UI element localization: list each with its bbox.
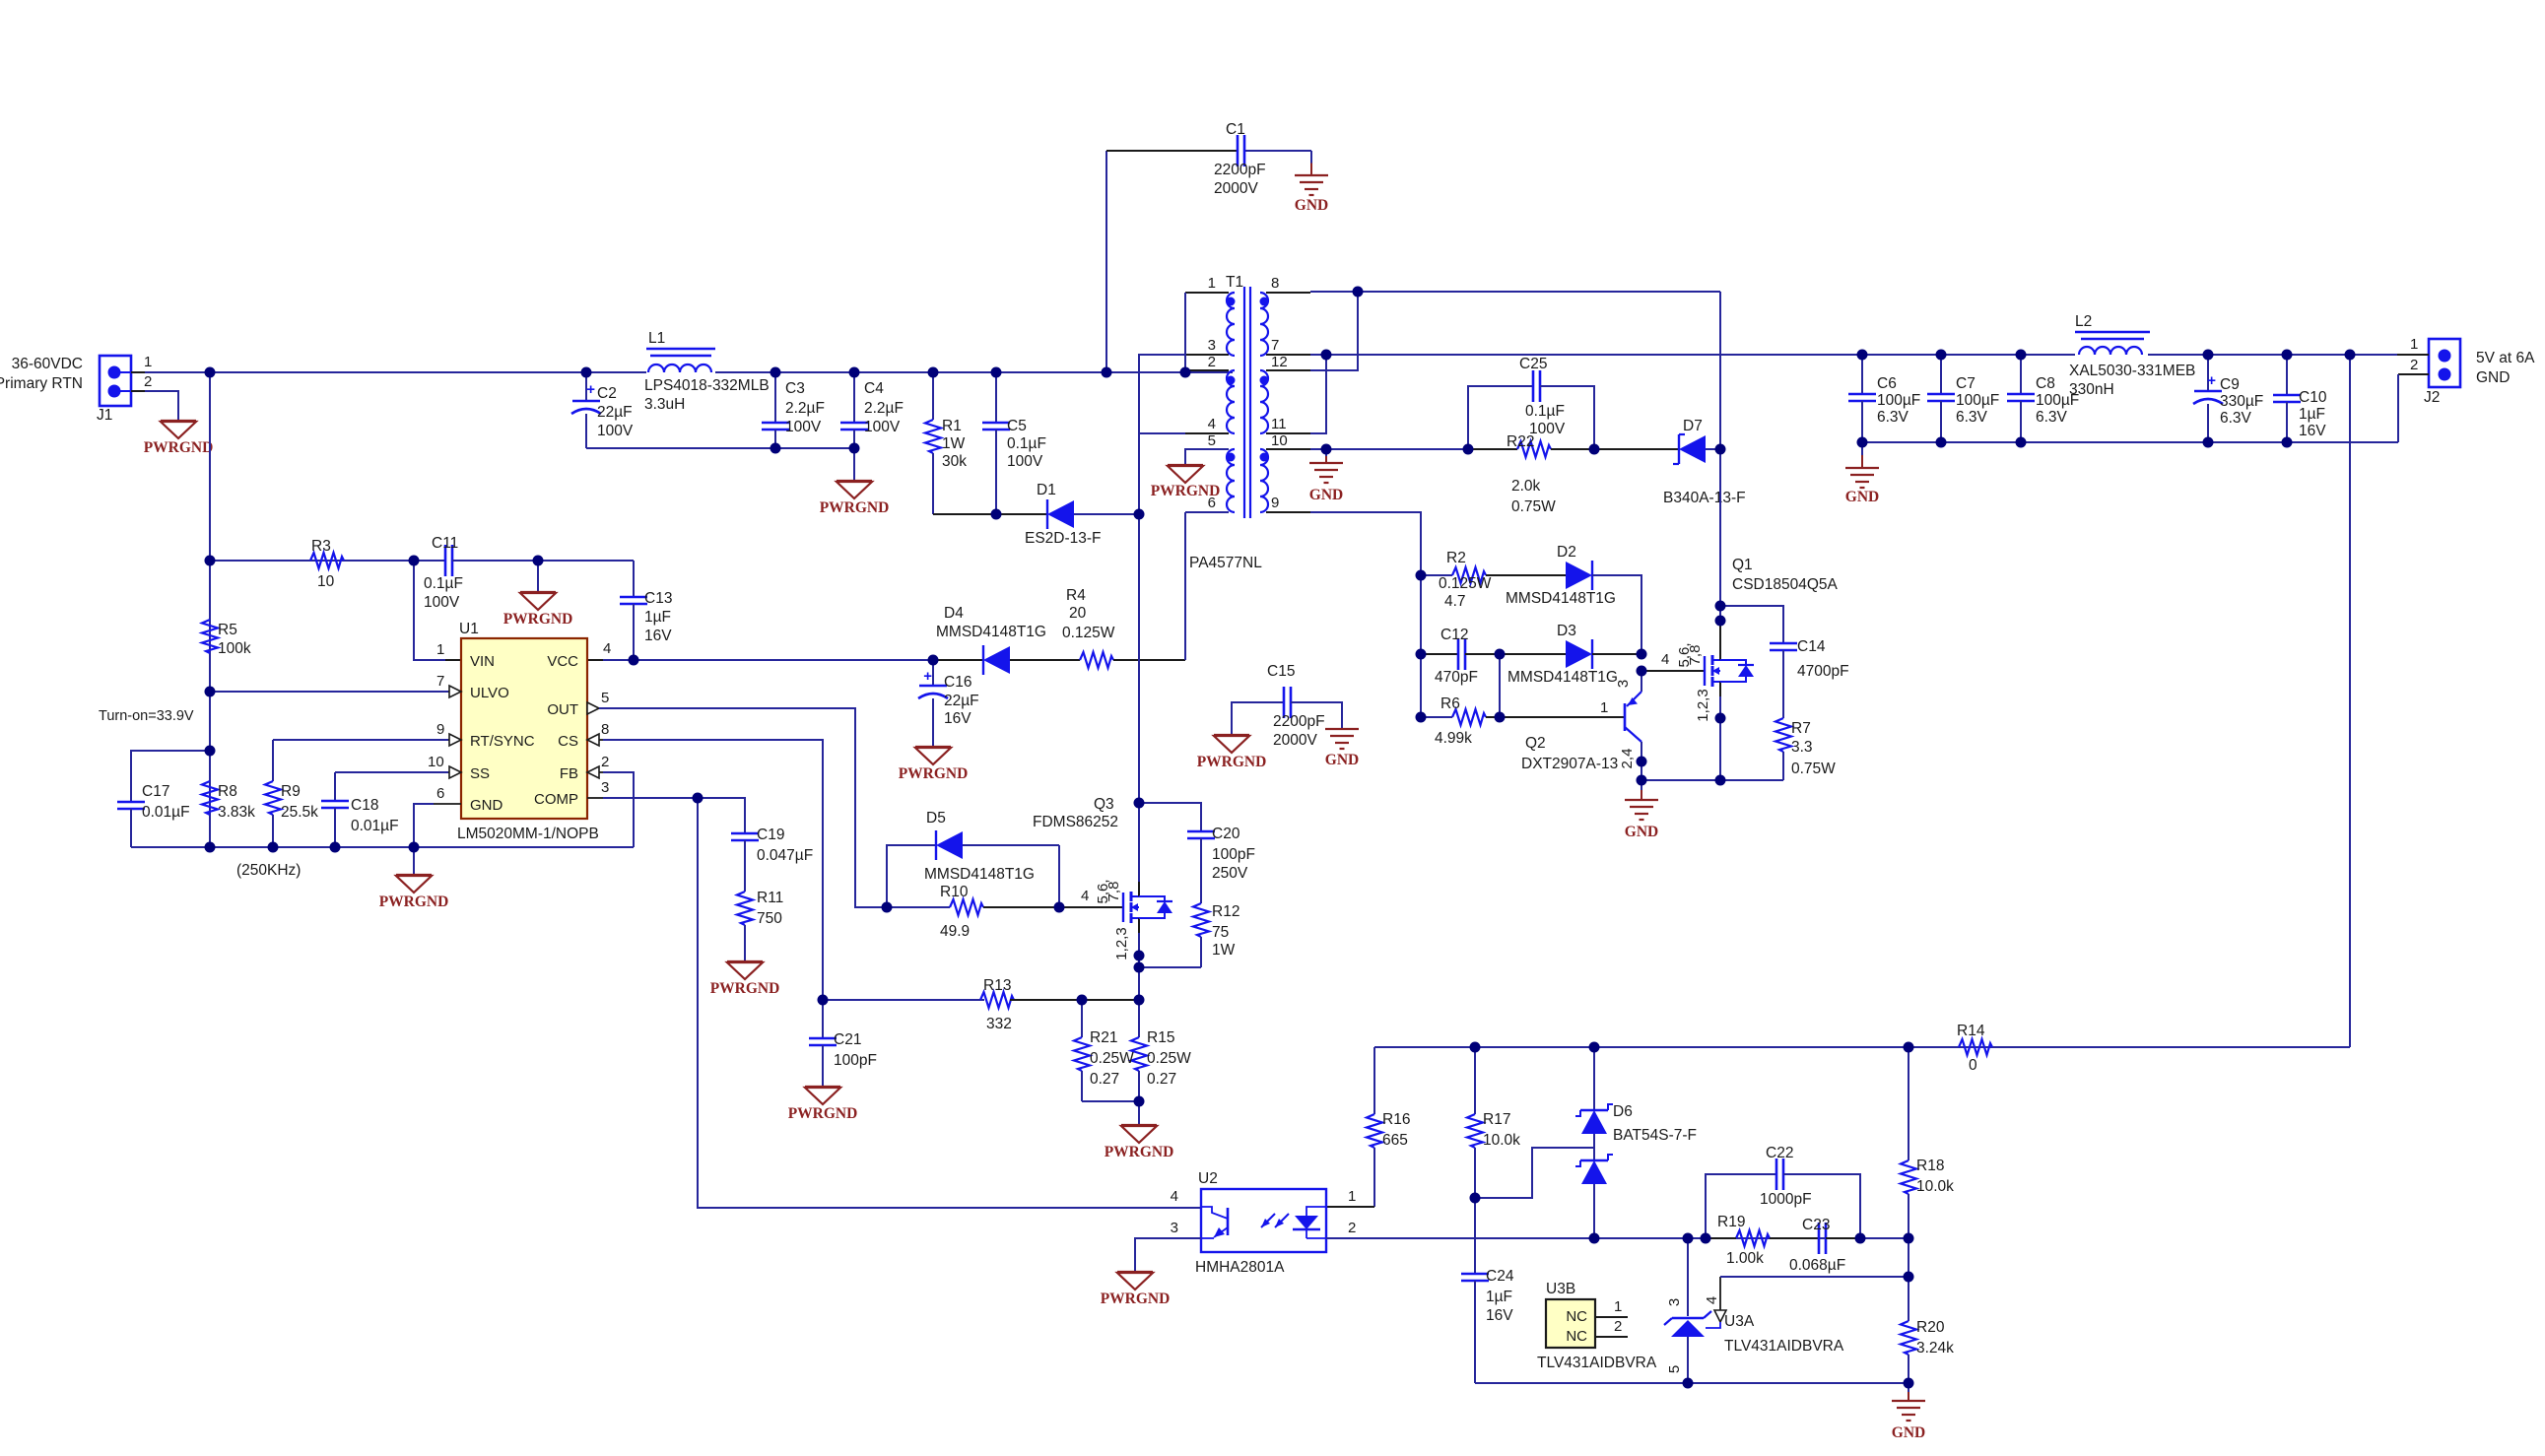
svg-text:C16: C16 — [944, 674, 971, 691]
svg-text:0.125W: 0.125W — [1439, 575, 1492, 592]
svg-text:HMHA2801A: HMHA2801A — [1195, 1259, 1285, 1276]
svg-text:0.27: 0.27 — [1147, 1071, 1176, 1088]
svg-text:U1: U1 — [459, 621, 479, 637]
svg-text:22µF: 22µF — [597, 404, 633, 421]
svg-text:D6: D6 — [1613, 1103, 1633, 1120]
svg-text:+: + — [586, 381, 595, 398]
svg-text:5: 5 — [1666, 1365, 1683, 1373]
svg-text:1: 1 — [436, 641, 444, 658]
svg-text:330nH: 330nH — [2069, 381, 2114, 398]
svg-text:100k: 100k — [218, 640, 251, 657]
svg-text:7: 7 — [1271, 337, 1279, 354]
svg-text:J1: J1 — [97, 407, 112, 424]
svg-text:6.3V: 6.3V — [2220, 410, 2252, 427]
svg-text:D1: D1 — [1037, 482, 1056, 498]
svg-text:C22: C22 — [1766, 1145, 1793, 1161]
svg-text:3: 3 — [601, 779, 609, 796]
svg-text:7: 7 — [436, 673, 444, 690]
svg-text:7,8: 7,8 — [1105, 882, 1122, 902]
svg-text:5: 5 — [601, 690, 609, 706]
svg-text:10: 10 — [317, 573, 335, 590]
svg-text:C24: C24 — [1486, 1268, 1514, 1285]
svg-text:XAL5030-331MEB: XAL5030-331MEB — [2069, 363, 2195, 379]
svg-text:C21: C21 — [834, 1031, 861, 1048]
svg-text:C14: C14 — [1797, 638, 1826, 655]
svg-text:PWRGND: PWRGND — [503, 611, 573, 628]
svg-text:D2: D2 — [1557, 544, 1576, 561]
svg-text:C17: C17 — [142, 783, 169, 800]
svg-text:R14: R14 — [1957, 1023, 1985, 1039]
svg-text:D3: D3 — [1557, 623, 1576, 639]
svg-text:R22: R22 — [1507, 433, 1534, 450]
svg-text:PWRGND: PWRGND — [379, 893, 449, 910]
svg-text:25.5k: 25.5k — [281, 804, 318, 821]
svg-text:100µF: 100µF — [1956, 392, 1999, 409]
svg-text:C25: C25 — [1519, 356, 1547, 372]
svg-text:R3: R3 — [311, 538, 331, 555]
svg-text:100V: 100V — [864, 419, 901, 435]
svg-text:PWRGND: PWRGND — [788, 1105, 858, 1122]
svg-text:Q1: Q1 — [1732, 557, 1753, 573]
svg-text:MMSD4148T1G: MMSD4148T1G — [1506, 590, 1616, 607]
svg-text:1000pF: 1000pF — [1760, 1191, 1812, 1208]
svg-text:PWRGND: PWRGND — [820, 499, 890, 516]
svg-text:16V: 16V — [2299, 423, 2326, 439]
svg-text:LPS4018-332MLB: LPS4018-332MLB — [644, 377, 770, 394]
svg-text:NC: NC — [1566, 1308, 1587, 1325]
svg-text:4: 4 — [603, 640, 611, 657]
svg-text:665: 665 — [1382, 1132, 1408, 1149]
svg-text:GND: GND — [1295, 197, 1328, 214]
svg-text:1µF: 1µF — [1486, 1289, 1512, 1305]
svg-text:5V at 6A: 5V at 6A — [2476, 350, 2535, 366]
svg-text:ES2D-13-F: ES2D-13-F — [1025, 530, 1102, 547]
svg-text:0.068µF: 0.068µF — [1789, 1257, 1845, 1274]
svg-text:C1: C1 — [1226, 121, 1245, 138]
svg-text:B340A-13-F: B340A-13-F — [1663, 490, 1746, 506]
svg-text:Q3: Q3 — [1094, 796, 1114, 813]
svg-text:10.0k: 10.0k — [1483, 1132, 1520, 1149]
svg-text:100V: 100V — [1529, 421, 1566, 437]
svg-text:332: 332 — [986, 1016, 1012, 1032]
svg-text:Q2: Q2 — [1525, 735, 1546, 752]
svg-text:6.3V: 6.3V — [1877, 409, 1909, 426]
svg-text:16V: 16V — [1486, 1307, 1513, 1324]
svg-text:0.01µF: 0.01µF — [142, 804, 190, 821]
svg-text:R10: R10 — [940, 884, 969, 900]
svg-text:3: 3 — [1171, 1220, 1178, 1236]
svg-text:PWRGND: PWRGND — [1197, 754, 1267, 770]
svg-text:T1: T1 — [1226, 274, 1243, 291]
svg-text:4: 4 — [1171, 1188, 1178, 1205]
svg-text:R17: R17 — [1483, 1111, 1510, 1128]
svg-text:+: + — [2207, 372, 2216, 389]
svg-text:36-60VDC: 36-60VDC — [12, 356, 83, 372]
svg-text:C6: C6 — [1877, 375, 1897, 392]
svg-text:16V: 16V — [944, 710, 971, 727]
svg-text:4: 4 — [1661, 651, 1669, 668]
svg-text:2.2µF: 2.2µF — [785, 400, 825, 417]
svg-text:750: 750 — [757, 910, 782, 927]
svg-text:0.047µF: 0.047µF — [757, 847, 813, 864]
svg-text:C12: C12 — [1440, 627, 1468, 643]
svg-text:D5: D5 — [926, 810, 946, 827]
svg-text:0.75W: 0.75W — [1791, 761, 1836, 777]
svg-text:49.9: 49.9 — [940, 923, 970, 940]
svg-text:R6: R6 — [1440, 695, 1460, 712]
svg-text:U2: U2 — [1198, 1170, 1218, 1187]
svg-text:0.125W: 0.125W — [1062, 625, 1115, 641]
svg-text:Primary RTN: Primary RTN — [0, 375, 83, 392]
svg-text:+: + — [923, 668, 932, 685]
svg-text:C7: C7 — [1956, 375, 1976, 392]
svg-text:75: 75 — [1212, 924, 1229, 941]
svg-text:12: 12 — [1271, 354, 1288, 370]
svg-text:R15: R15 — [1147, 1029, 1174, 1046]
svg-text:4: 4 — [1081, 888, 1089, 904]
svg-text:4: 4 — [1208, 416, 1216, 432]
svg-text:7,8: 7,8 — [1687, 645, 1704, 666]
svg-text:C8: C8 — [2036, 375, 2055, 392]
svg-text:0.27: 0.27 — [1090, 1071, 1119, 1088]
svg-text:DXT2907A-13: DXT2907A-13 — [1521, 756, 1618, 772]
svg-text:C5: C5 — [1007, 418, 1027, 434]
svg-text:8: 8 — [1271, 275, 1279, 292]
svg-text:3: 3 — [1208, 337, 1216, 354]
svg-text:GND: GND — [1309, 487, 1343, 503]
svg-text:1,2,3: 1,2,3 — [1695, 689, 1711, 721]
svg-text:CS: CS — [558, 733, 578, 750]
svg-text:2,4: 2,4 — [1619, 749, 1636, 769]
svg-text:GND: GND — [1892, 1424, 1925, 1441]
svg-text:R11: R11 — [757, 890, 783, 906]
svg-text:4: 4 — [1704, 1296, 1720, 1304]
svg-text:2: 2 — [601, 754, 609, 770]
svg-text:1: 1 — [1348, 1188, 1356, 1205]
svg-text:0.25W: 0.25W — [1090, 1050, 1134, 1067]
svg-text:11: 11 — [1271, 416, 1287, 432]
svg-text:OUT: OUT — [547, 701, 578, 718]
svg-text:GND: GND — [2476, 369, 2510, 386]
svg-text:(250KHz): (250KHz) — [236, 862, 301, 879]
svg-text:R7: R7 — [1791, 720, 1811, 737]
svg-text:TLV431AIDBVRA: TLV431AIDBVRA — [1537, 1355, 1657, 1371]
svg-text:2: 2 — [2410, 357, 2418, 373]
svg-text:10: 10 — [1271, 432, 1288, 449]
svg-text:COMP: COMP — [534, 791, 578, 808]
svg-text:30k: 30k — [942, 453, 967, 470]
svg-text:RT/SYNC: RT/SYNC — [470, 733, 535, 750]
svg-text:LM5020MM-1/NOPB: LM5020MM-1/NOPB — [457, 826, 599, 842]
svg-text:100V: 100V — [424, 594, 460, 611]
svg-text:1: 1 — [1614, 1298, 1622, 1315]
svg-text:4700pF: 4700pF — [1797, 663, 1849, 680]
svg-text:GND: GND — [1325, 752, 1359, 768]
svg-text:R5: R5 — [218, 622, 237, 638]
svg-text:NC: NC — [1566, 1328, 1587, 1345]
svg-text:PWRGND: PWRGND — [710, 980, 780, 997]
svg-text:20: 20 — [1069, 605, 1087, 622]
svg-text:CSD18504Q5A: CSD18504Q5A — [1732, 576, 1839, 593]
svg-text:6: 6 — [436, 785, 444, 802]
svg-text:0.1µF: 0.1µF — [1007, 435, 1046, 452]
svg-text:J2: J2 — [2424, 389, 2440, 406]
svg-text:1: 1 — [1600, 699, 1608, 716]
svg-text:C13: C13 — [644, 590, 672, 607]
svg-text:R8: R8 — [218, 783, 237, 800]
svg-text:VCC: VCC — [547, 653, 578, 670]
svg-text:2: 2 — [1208, 354, 1216, 370]
svg-text:100µF: 100µF — [1877, 392, 1920, 409]
svg-text:C19: C19 — [757, 827, 784, 843]
svg-text:MMSD4148T1G: MMSD4148T1G — [924, 866, 1035, 883]
svg-text:1W: 1W — [942, 435, 966, 452]
svg-text:2200pF: 2200pF — [1214, 162, 1266, 178]
svg-text:5: 5 — [1208, 432, 1216, 449]
svg-text:6.3V: 6.3V — [1956, 409, 1988, 426]
svg-text:470pF: 470pF — [1435, 669, 1478, 686]
svg-text:MMSD4148T1G: MMSD4148T1G — [1507, 669, 1618, 686]
svg-text:3: 3 — [1615, 680, 1632, 688]
svg-text:3.3uH: 3.3uH — [644, 396, 685, 413]
svg-text:2.0k: 2.0k — [1511, 478, 1541, 495]
svg-text:R16: R16 — [1382, 1111, 1410, 1128]
svg-text:C4: C4 — [864, 380, 884, 397]
svg-text:250V: 250V — [1212, 865, 1248, 882]
svg-text:1: 1 — [1208, 275, 1216, 292]
svg-text:330µF: 330µF — [2220, 393, 2263, 410]
svg-text:D4: D4 — [944, 605, 964, 622]
svg-text:3: 3 — [1666, 1298, 1683, 1306]
svg-text:2200pF: 2200pF — [1273, 713, 1325, 730]
svg-text:C15: C15 — [1267, 663, 1295, 680]
svg-text:100V: 100V — [785, 419, 822, 435]
svg-text:R18: R18 — [1916, 1158, 1944, 1174]
svg-text:9: 9 — [1271, 495, 1279, 511]
svg-text:MMSD4148T1G: MMSD4148T1G — [936, 624, 1046, 640]
svg-text:C2: C2 — [597, 385, 617, 402]
svg-text:GND: GND — [470, 797, 503, 814]
svg-text:100pF: 100pF — [1212, 846, 1255, 863]
svg-text:0.01µF: 0.01µF — [351, 818, 399, 834]
svg-text:GND: GND — [1625, 824, 1658, 840]
svg-text:R4: R4 — [1066, 587, 1086, 604]
svg-text:L1: L1 — [648, 330, 665, 347]
svg-text:R2: R2 — [1446, 550, 1466, 566]
svg-text:0.1µF: 0.1µF — [424, 575, 463, 592]
svg-text:TLV431AIDBVRA: TLV431AIDBVRA — [1724, 1338, 1844, 1355]
svg-text:0.25W: 0.25W — [1147, 1050, 1191, 1067]
svg-text:R13: R13 — [983, 977, 1011, 994]
svg-text:C9: C9 — [2220, 376, 2240, 393]
svg-text:R20: R20 — [1916, 1319, 1945, 1336]
svg-text:0.1µF: 0.1µF — [1525, 403, 1565, 420]
svg-text:ULVO: ULVO — [470, 685, 509, 701]
svg-text:C11: C11 — [432, 535, 458, 552]
svg-text:100V: 100V — [1007, 453, 1043, 470]
svg-text:C10: C10 — [2299, 389, 2327, 406]
svg-text:R19: R19 — [1717, 1214, 1745, 1230]
svg-text:2: 2 — [144, 373, 152, 390]
svg-text:3.83k: 3.83k — [218, 804, 255, 821]
svg-text:4.7: 4.7 — [1444, 593, 1466, 610]
svg-text:PWRGND: PWRGND — [899, 765, 969, 782]
svg-text:10.0k: 10.0k — [1916, 1178, 1954, 1195]
svg-text:R9: R9 — [281, 783, 301, 800]
svg-text:FB: FB — [560, 765, 578, 782]
svg-text:VIN: VIN — [470, 653, 495, 670]
svg-text:8: 8 — [601, 721, 609, 738]
svg-text:PA4577NL: PA4577NL — [1189, 555, 1262, 571]
svg-text:U3B: U3B — [1546, 1281, 1575, 1297]
svg-text:1µF: 1µF — [2299, 406, 2325, 423]
svg-text:2000V: 2000V — [1273, 732, 1317, 749]
svg-text:1.00k: 1.00k — [1726, 1250, 1764, 1267]
svg-text:C3: C3 — [785, 380, 805, 397]
svg-text:C23: C23 — [1802, 1217, 1830, 1233]
svg-text:R1: R1 — [942, 418, 962, 434]
svg-text:FDMS86252: FDMS86252 — [1033, 814, 1118, 830]
svg-text:SS: SS — [470, 765, 490, 782]
svg-text:PWRGND: PWRGND — [144, 439, 214, 456]
svg-text:3.24k: 3.24k — [1916, 1340, 1954, 1357]
svg-text:0.75W: 0.75W — [1511, 498, 1556, 515]
svg-text:16V: 16V — [644, 628, 672, 644]
svg-text:C20: C20 — [1212, 826, 1240, 842]
svg-text:R12: R12 — [1212, 903, 1239, 920]
svg-text:GND: GND — [1845, 489, 1879, 505]
svg-text:3.3: 3.3 — [1791, 739, 1813, 756]
svg-text:C18: C18 — [351, 797, 378, 814]
svg-text:0: 0 — [1969, 1057, 1977, 1074]
svg-text:BAT54S-7-F: BAT54S-7-F — [1613, 1127, 1697, 1144]
svg-text:100pF: 100pF — [834, 1052, 877, 1069]
svg-text:1W: 1W — [1212, 942, 1236, 959]
svg-text:2: 2 — [1348, 1220, 1356, 1236]
svg-text:2000V: 2000V — [1214, 180, 1258, 197]
svg-text:6.3V: 6.3V — [2036, 409, 2068, 426]
svg-text:100V: 100V — [597, 423, 634, 439]
svg-text:1,2,3: 1,2,3 — [1113, 927, 1130, 960]
svg-text:L2: L2 — [2075, 313, 2092, 330]
svg-text:10: 10 — [428, 754, 444, 770]
svg-text:Turn-on=33.9V: Turn-on=33.9V — [99, 708, 194, 724]
svg-text:9: 9 — [436, 721, 444, 738]
svg-text:PWRGND: PWRGND — [1151, 483, 1221, 499]
svg-text:U3A: U3A — [1724, 1313, 1755, 1330]
svg-text:PWRGND: PWRGND — [1101, 1291, 1171, 1307]
svg-text:1: 1 — [144, 354, 152, 370]
svg-text:2.2µF: 2.2µF — [864, 400, 904, 417]
svg-text:PWRGND: PWRGND — [1105, 1144, 1174, 1160]
svg-text:2: 2 — [1614, 1318, 1622, 1335]
svg-text:D7: D7 — [1683, 418, 1703, 434]
svg-text:1µF: 1µF — [644, 609, 671, 626]
svg-text:4.99k: 4.99k — [1435, 730, 1472, 747]
svg-text:R21: R21 — [1090, 1029, 1117, 1046]
svg-text:1: 1 — [2410, 336, 2418, 353]
svg-text:22µF: 22µF — [944, 693, 979, 709]
